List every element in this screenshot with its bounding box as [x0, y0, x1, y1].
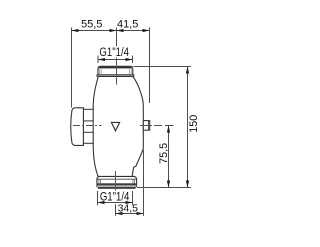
knob horizontal centerline dashed — [73, 125, 102, 127]
G1"1/4 top dim ticks — [97, 56, 99, 64]
right stub — [143, 121, 149, 131]
34,5 left tick — [115, 204, 117, 216]
stub horizontal centerline dashed — [140, 125, 163, 127]
svg-text:150: 150 — [188, 115, 200, 133]
knob cap (left handle) — [71, 108, 84, 146]
dim line 150 — [187, 67, 189, 188]
dim line 75,5 — [168, 126, 170, 188]
top dim arrows — [72, 29, 79, 32]
leader top right — [134, 66, 191, 68]
dim 75,5 top tick — [165, 125, 174, 127]
valve body outline — [93, 76, 143, 176]
bottom collar thread ticks — [98, 179, 100, 183]
bottom outlet collar G1-1/4 — [97, 176, 137, 188]
G1"1/4 bottom dim line — [98, 202, 133, 204]
dim extension line left (55,5) — [71, 28, 73, 108]
top collar top edge thick — [99, 66, 131, 68]
G1"1/4 bottom dim ticks — [97, 191, 99, 205]
top collar inner line — [98, 68, 132, 70]
svg-text:41,5: 41,5 — [117, 19, 138, 31]
dim extension line right (41,5) — [149, 28, 151, 104]
top dimension line — [72, 30, 150, 32]
G1"1/4 top dim line — [98, 59, 133, 61]
flow triangle — [111, 122, 119, 130]
34,5 right extension — [143, 150, 145, 216]
svg-text:34,5: 34,5 — [118, 203, 139, 215]
top collar thread ticks — [99, 69, 101, 75]
top thread lip — [97, 75, 134, 77]
bottom collar inner lines — [97, 178, 137, 180]
dim extension line middle — [116, 28, 118, 47]
svg-text:55,5: 55,5 — [81, 19, 102, 31]
leader bottom right — [137, 187, 191, 189]
knob stem lines — [83, 108, 93, 110]
vertical centerline top — [116, 58, 118, 85]
svg-text:75,5: 75,5 — [158, 143, 170, 164]
34,5 dim line — [116, 213, 144, 215]
stub face inner line — [147, 121, 149, 130]
top thread collar G1-1/4 — [98, 66, 133, 75]
vertical centerline bottom outlet — [115, 171, 117, 191]
svg-text:G1"1/4: G1"1/4 — [99, 46, 129, 59]
